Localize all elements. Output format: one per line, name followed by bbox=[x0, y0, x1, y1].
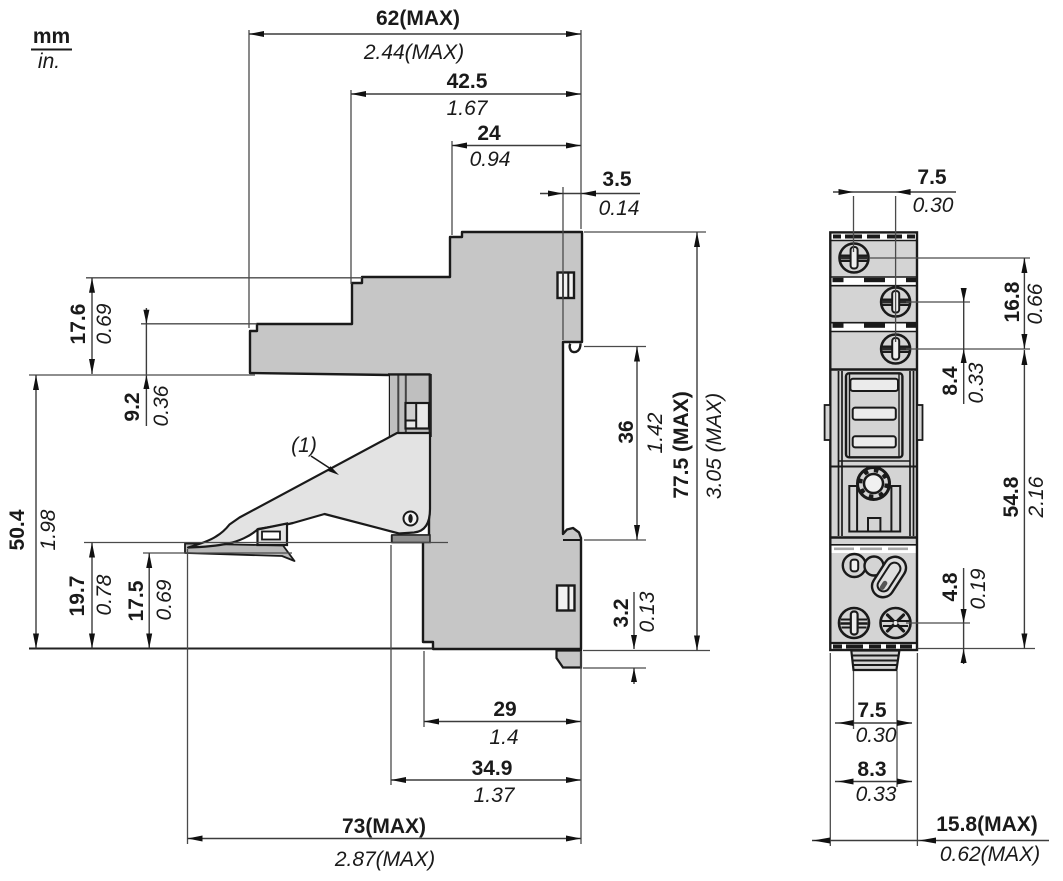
svg-text:1.42: 1.42 bbox=[644, 412, 667, 453]
label (1) with leader bbox=[291, 434, 339, 475]
relay central block bbox=[846, 373, 902, 457]
pedestal band lines bbox=[839, 460, 911, 462]
svg-text:0.14: 0.14 bbox=[599, 197, 640, 220]
bottom tab of side view bbox=[557, 651, 582, 668]
svg-text:3.05 (MAX): 3.05 (MAX) bbox=[703, 393, 726, 499]
dim 50.4 bbox=[6, 375, 433, 649]
dim 17.5 bbox=[125, 553, 292, 649]
keyhole slot bbox=[868, 553, 910, 602]
svg-text:0.94: 0.94 bbox=[470, 148, 511, 171]
lever screw circle bbox=[404, 512, 418, 526]
svg-text:9.2: 9.2 bbox=[121, 392, 144, 421]
dim 77.5 (MAX) bbox=[583, 232, 726, 651]
svg-text:7.5: 7.5 bbox=[857, 699, 887, 722]
dim 3.5 bbox=[540, 168, 640, 340]
bottom screw left bbox=[839, 608, 869, 638]
front body outline bbox=[830, 232, 917, 650]
dim 8.3 bbox=[835, 758, 912, 806]
side nubs bbox=[825, 405, 831, 440]
dim 3.2 bbox=[583, 591, 659, 684]
front view body base bbox=[830, 232, 917, 650]
dim 15.8(MAX) bbox=[812, 653, 1049, 866]
bottom DIN clip bbox=[557, 586, 575, 611]
arm bottom edge over pivot block bbox=[388, 373, 431, 375]
screw 2 bbox=[881, 288, 910, 317]
dim 54.8 bbox=[918, 350, 1049, 649]
svg-text:34.9: 34.9 bbox=[472, 757, 513, 780]
svg-text:0.30: 0.30 bbox=[913, 194, 954, 217]
dim 73(MAX) bbox=[188, 549, 582, 871]
svg-text:0.69: 0.69 bbox=[93, 303, 116, 344]
svg-text:1.37: 1.37 bbox=[474, 784, 516, 807]
svg-text:0.69: 0.69 bbox=[153, 579, 176, 620]
top DIN clip bbox=[558, 273, 575, 299]
relay area rails bbox=[839, 371, 914, 536]
lever pivot latch bbox=[406, 403, 430, 429]
screw 1 bbox=[840, 244, 869, 273]
svg-text:0.33: 0.33 bbox=[965, 362, 988, 403]
svg-text:77.5 (MAX): 77.5 (MAX) bbox=[670, 391, 693, 498]
svg-text:36: 36 bbox=[615, 420, 638, 443]
dim 8.4 bbox=[906, 288, 988, 404]
svg-text:15.8(MAX): 15.8(MAX) bbox=[936, 813, 1038, 836]
dim 7.5 top bbox=[833, 166, 956, 342]
slot 2 bbox=[853, 408, 896, 420]
svg-text:0.13: 0.13 bbox=[636, 591, 659, 632]
svg-text:17.6: 17.6 bbox=[67, 304, 90, 345]
svg-text:42.5: 42.5 bbox=[447, 70, 488, 93]
dim 7.5 bottom bbox=[835, 671, 912, 787]
svg-text:1.67: 1.67 bbox=[447, 97, 489, 120]
dim 36 bbox=[584, 347, 667, 541]
svg-text:2.16: 2.16 bbox=[1025, 476, 1048, 518]
svg-text:0.62(MAX): 0.62(MAX) bbox=[940, 843, 1040, 866]
svg-text:2.44(MAX): 2.44(MAX) bbox=[363, 41, 464, 64]
svg-text:4.8: 4.8 bbox=[939, 572, 962, 602]
svg-text:0.78: 0.78 bbox=[93, 574, 116, 615]
svg-text:0.19: 0.19 bbox=[967, 568, 990, 609]
ledge band under lever corner bbox=[392, 535, 430, 543]
dim 17.6 bbox=[67, 278, 362, 374]
slot 1 bbox=[850, 379, 898, 391]
svg-text:17.5: 17.5 bbox=[125, 580, 148, 621]
top strip ticks bbox=[833, 235, 915, 239]
svg-text:0.30: 0.30 bbox=[856, 724, 897, 747]
DIN rail top hook detail bbox=[570, 344, 581, 353]
section lines bbox=[830, 240, 917, 242]
svg-text:16.8: 16.8 bbox=[1001, 281, 1024, 322]
screw 3 bbox=[881, 335, 910, 364]
slot 3 bbox=[853, 436, 896, 447]
svg-text:8.3: 8.3 bbox=[857, 758, 886, 781]
dim 24 bbox=[452, 122, 581, 235]
keyhole section small circle bbox=[843, 554, 866, 577]
units legend mm over in. bbox=[31, 25, 72, 73]
groove dark band bbox=[429, 374, 432, 437]
bottom strip ticks bbox=[833, 645, 912, 649]
divider band 2 ticks bbox=[833, 323, 917, 327]
dim 29 bbox=[424, 651, 581, 749]
lower white band ticks bbox=[834, 548, 908, 551]
dim 34.9 bbox=[391, 545, 581, 807]
DIN recess bottom ledge line bbox=[563, 539, 581, 541]
svg-text:0.36: 0.36 bbox=[150, 385, 173, 426]
svg-text:3.2: 3.2 bbox=[610, 598, 633, 627]
second circle behind keyhole bbox=[865, 557, 884, 576]
svg-text:(1): (1) bbox=[291, 434, 317, 457]
dim 9.2 bbox=[121, 308, 257, 426]
svg-text:1.4: 1.4 bbox=[489, 726, 518, 749]
pivot groove strips behind lever bbox=[390, 375, 430, 437]
dim 16.8 bbox=[870, 258, 1047, 349]
svg-text:29: 29 bbox=[493, 698, 516, 721]
svg-text:0.33: 0.33 bbox=[856, 783, 897, 806]
svg-text:in.: in. bbox=[38, 50, 60, 73]
lever clip block bbox=[258, 524, 288, 546]
svg-text:8.4: 8.4 bbox=[939, 366, 962, 396]
svg-text:62(MAX): 62(MAX) bbox=[376, 7, 460, 30]
divider band 1 ticks bbox=[833, 278, 917, 282]
svg-text:50.4: 50.4 bbox=[6, 509, 29, 550]
dim 42.5 bbox=[351, 70, 581, 284]
svg-text:3.5: 3.5 bbox=[602, 168, 632, 191]
front bottom tab bbox=[851, 651, 899, 671]
bottom screw right bbox=[881, 608, 911, 638]
dim 62(MAX) bbox=[249, 7, 581, 328]
retaining nut bbox=[858, 468, 890, 500]
svg-text:2.87(MAX): 2.87(MAX) bbox=[334, 848, 435, 871]
svg-text:0.66: 0.66 bbox=[1024, 283, 1047, 324]
svg-text:mm: mm bbox=[33, 25, 70, 48]
svg-text:1.98: 1.98 bbox=[37, 509, 60, 550]
svg-text:19.7: 19.7 bbox=[66, 576, 89, 617]
svg-text:7.5: 7.5 bbox=[917, 166, 947, 189]
svg-text:73(MAX): 73(MAX) bbox=[342, 815, 426, 838]
white strips bbox=[831, 233, 916, 240]
svg-text:24: 24 bbox=[477, 122, 501, 145]
svg-text:54.8: 54.8 bbox=[1000, 476, 1023, 517]
DIN rail flange under lever tip bbox=[185, 544, 295, 562]
dim 4.8 bbox=[906, 568, 990, 664]
release lever bbox=[188, 433, 430, 548]
dim 19.7 bbox=[66, 543, 448, 649]
side view main body silhouette bbox=[250, 232, 582, 649]
bracket legs bbox=[849, 486, 900, 532]
